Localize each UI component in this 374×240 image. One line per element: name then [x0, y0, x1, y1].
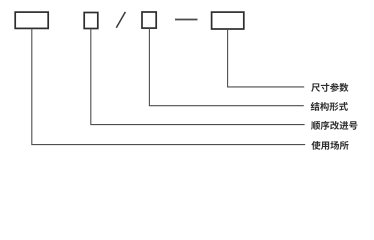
dash separator: [175, 19, 198, 21]
model designation diagram: [0, 0, 374, 158]
label: sequence improvement number (顺序改进号): [311, 121, 357, 130]
leader line from box 3 to structure-form label: [149, 28, 303, 106]
leader line from box 1 to usage-place label: [32, 28, 305, 144]
label: usage place (使用场所): [311, 141, 348, 150]
label: structure form (结构形式): [311, 102, 348, 111]
slash separator: [116, 12, 125, 28]
leader line from box 4 to size-parameter label: [228, 29, 305, 87]
box 3: structure-form field: [142, 12, 156, 28]
leader line from box 2 to sequence-number label: [91, 29, 305, 125]
box 1: usage-place code field: [15, 12, 48, 28]
box 4: size-parameter field: [212, 12, 244, 29]
label: size parameters (尺寸参数): [311, 83, 348, 92]
box 2: sequence-number field: [84, 13, 98, 29]
